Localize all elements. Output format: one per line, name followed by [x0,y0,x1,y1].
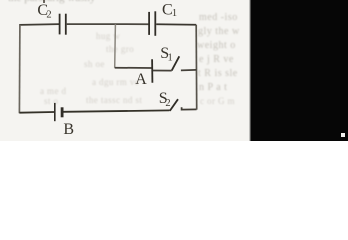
svg-text:2: 2 [46,10,51,21]
battery B plate short [61,107,64,117]
wire top-middle segment [67,23,149,25]
wire top-right segment [156,23,196,26]
wire inner vertical [114,24,117,67]
black scan band on right [249,0,348,141]
wire top-left segment [20,24,59,26]
svg-text:1: 1 [172,8,177,19]
switch S2 blade [170,99,178,111]
wire bottom-left segment [19,111,54,114]
switch S1 left stub [153,70,172,72]
svg-text:1: 1 [168,52,173,63]
switch S2 right stub [182,107,197,109]
cut-off text line at top edge [8,0,130,6]
switch S1 right stub [181,69,197,72]
faint bleed-through text right column [199,12,238,23]
wire right vertical [195,25,198,110]
wire left vertical [18,25,21,113]
battery B plate long [54,103,56,121]
white notch in black band [341,133,345,137]
capacitor C2 [60,14,66,35]
svg-text:A: A [135,71,147,88]
circuit schematic [0,0,348,141]
switch S1 blade [172,56,180,70]
node A contact bar [151,59,153,83]
wire inner horizontal to node A [115,67,152,69]
svg-text:2: 2 [165,98,170,109]
faint bleed-through text inside circuit [96,31,120,41]
wire bottom-middle segment [64,110,170,111]
capacitor C1 [149,11,155,36]
svg-text:B: B [63,121,74,138]
